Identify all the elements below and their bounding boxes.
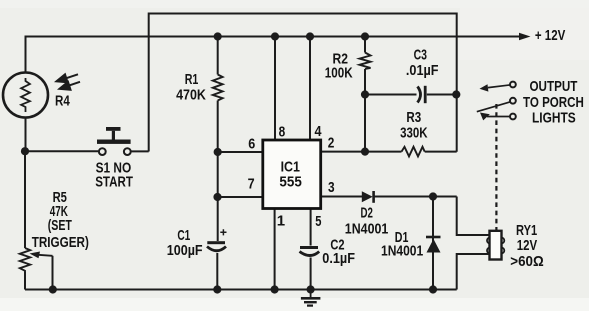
svg-text:100K: 100K [325, 64, 353, 81]
svg-text:.01µF: .01µF [406, 62, 439, 79]
ground [301, 290, 321, 306]
wire S1 right to top rail [132, 150, 149, 152]
wire left column R5 [24, 151, 26, 289]
svg-text:R4: R4 [55, 93, 70, 110]
node C3 right [452, 90, 460, 98]
wire relay bottom [457, 254, 490, 290]
svg-text:1N4001: 1N4001 [381, 243, 423, 260]
node pin4 top [306, 32, 314, 40]
wire pin 3 / D2 row [321, 197, 490, 236]
svg-text:5: 5 [315, 213, 321, 230]
svg-text:0.1µF: 0.1µF [322, 250, 355, 267]
wire D1 column [432, 197, 434, 290]
svg-text:LIGHTS: LIGHTS [532, 110, 576, 127]
node R1 top [214, 32, 222, 40]
wire pin 6 [218, 151, 263, 153]
paper shading patches [0, 298, 589, 311]
wire bottom rail [25, 289, 457, 291]
wire top rail [149, 14, 457, 152]
op-amp substitute: IC U1 555 box [263, 140, 321, 209]
wire pin 8 [274, 37, 276, 141]
wire R2 column [364, 37, 366, 153]
wire C3 row [365, 94, 457, 96]
relay contacts: output terminals [477, 82, 516, 121]
svg-text:1: 1 [277, 212, 285, 229]
svg-text:TRIGGER): TRIGGER) [32, 234, 89, 251]
resistor R3 [402, 147, 425, 157]
wire pin 7 [218, 196, 263, 198]
svg-text:TO PORCH: TO PORCH [523, 94, 584, 111]
svg-text:R3: R3 [406, 109, 421, 126]
wire R4 bottom to S1 [26, 118, 99, 151]
svg-text:8: 8 [279, 124, 286, 141]
resistor R2 [360, 53, 371, 70]
node R4/S1/R5 junction [21, 147, 29, 155]
node R2/pin2 [361, 148, 369, 156]
svg-text:555: 555 [279, 174, 301, 191]
capacitor C2 [300, 246, 320, 256]
node pin1 bottom [271, 285, 279, 293]
svg-text:12V: 12V [517, 237, 537, 254]
svg-text:START: START [95, 174, 133, 191]
node pin6 [214, 148, 222, 156]
node D2/D1 [429, 192, 437, 200]
svg-text:R1: R1 [185, 71, 199, 88]
node R2 top [361, 32, 369, 40]
+12V arrow [519, 33, 531, 40]
relay coil RY1 [487, 231, 504, 260]
node C3 left [361, 90, 369, 98]
capacitor C1 [207, 229, 227, 251]
wire R5 wiper drop [52, 256, 54, 290]
resistor R1 [213, 75, 223, 101]
wire pin 5 / C2 column [310, 209, 312, 290]
svg-text:D2: D2 [361, 204, 373, 221]
svg-text:100µF: 100µF [167, 242, 203, 259]
svg-text:2: 2 [328, 135, 335, 152]
node C2/ground [307, 285, 315, 293]
capacitor C3 [418, 86, 426, 103]
node pin8 top [271, 32, 279, 40]
dashed actuator line [495, 104, 497, 230]
svg-text:+ 12V: + 12V [535, 27, 565, 44]
svg-text:6: 6 [248, 136, 255, 153]
potentiometer R5 [20, 248, 30, 272]
svg-text:4: 4 [315, 123, 323, 140]
wire pin 1 [274, 209, 276, 290]
svg-text:7: 7 [248, 176, 255, 193]
svg-text:330K: 330K [400, 125, 428, 142]
wire C1 column gap [216, 253, 218, 290]
svg-text:OUTPUT: OUTPUT [530, 78, 578, 95]
node D1 bottom [429, 285, 437, 293]
pushbutton S1 [97, 127, 131, 155]
svg-text:1N4001: 1N4001 [345, 221, 389, 238]
wire R1 column [217, 37, 219, 242]
R5 wiper arrow [30, 252, 53, 259]
svg-text:470K: 470K [176, 87, 206, 104]
R4 light arrows [57, 74, 81, 90]
photoresistor R4 [3, 73, 48, 118]
wire +12V rail [26, 37, 521, 73]
svg-text:>60Ω: >60Ω [510, 253, 543, 270]
node C1 bottom [213, 285, 221, 293]
svg-text:3: 3 [328, 179, 335, 196]
wire pin 2 / R3 row [321, 151, 457, 153]
wire pin 4 [309, 37, 311, 141]
diode D2 [362, 191, 374, 203]
node R5 wiper bottom [49, 285, 57, 293]
node pin7 [213, 193, 221, 201]
diode D1 [426, 237, 441, 253]
svg-text:(SET: (SET [48, 217, 72, 234]
